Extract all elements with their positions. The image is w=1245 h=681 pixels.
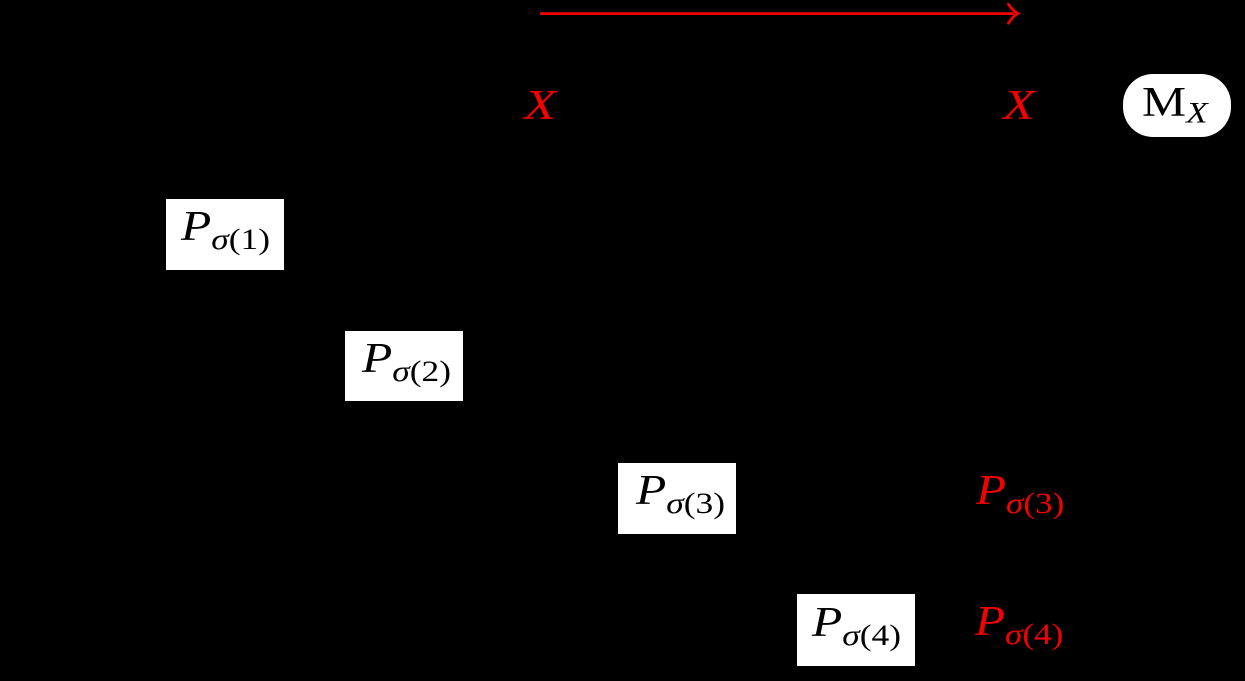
node M_X rounded box xyxy=(1123,74,1231,137)
node X (left, red) xyxy=(524,85,556,127)
node P_sigma(4) label (red) xyxy=(975,601,1063,650)
node P_sigma(3) box xyxy=(618,463,736,534)
node P_sigma(1) box xyxy=(166,199,284,270)
node P_sigma(2) box xyxy=(345,331,463,401)
node P_sigma(4) box xyxy=(797,594,915,666)
node X (right, red) xyxy=(1003,85,1035,127)
node P_sigma(3) label (red) xyxy=(976,470,1064,519)
